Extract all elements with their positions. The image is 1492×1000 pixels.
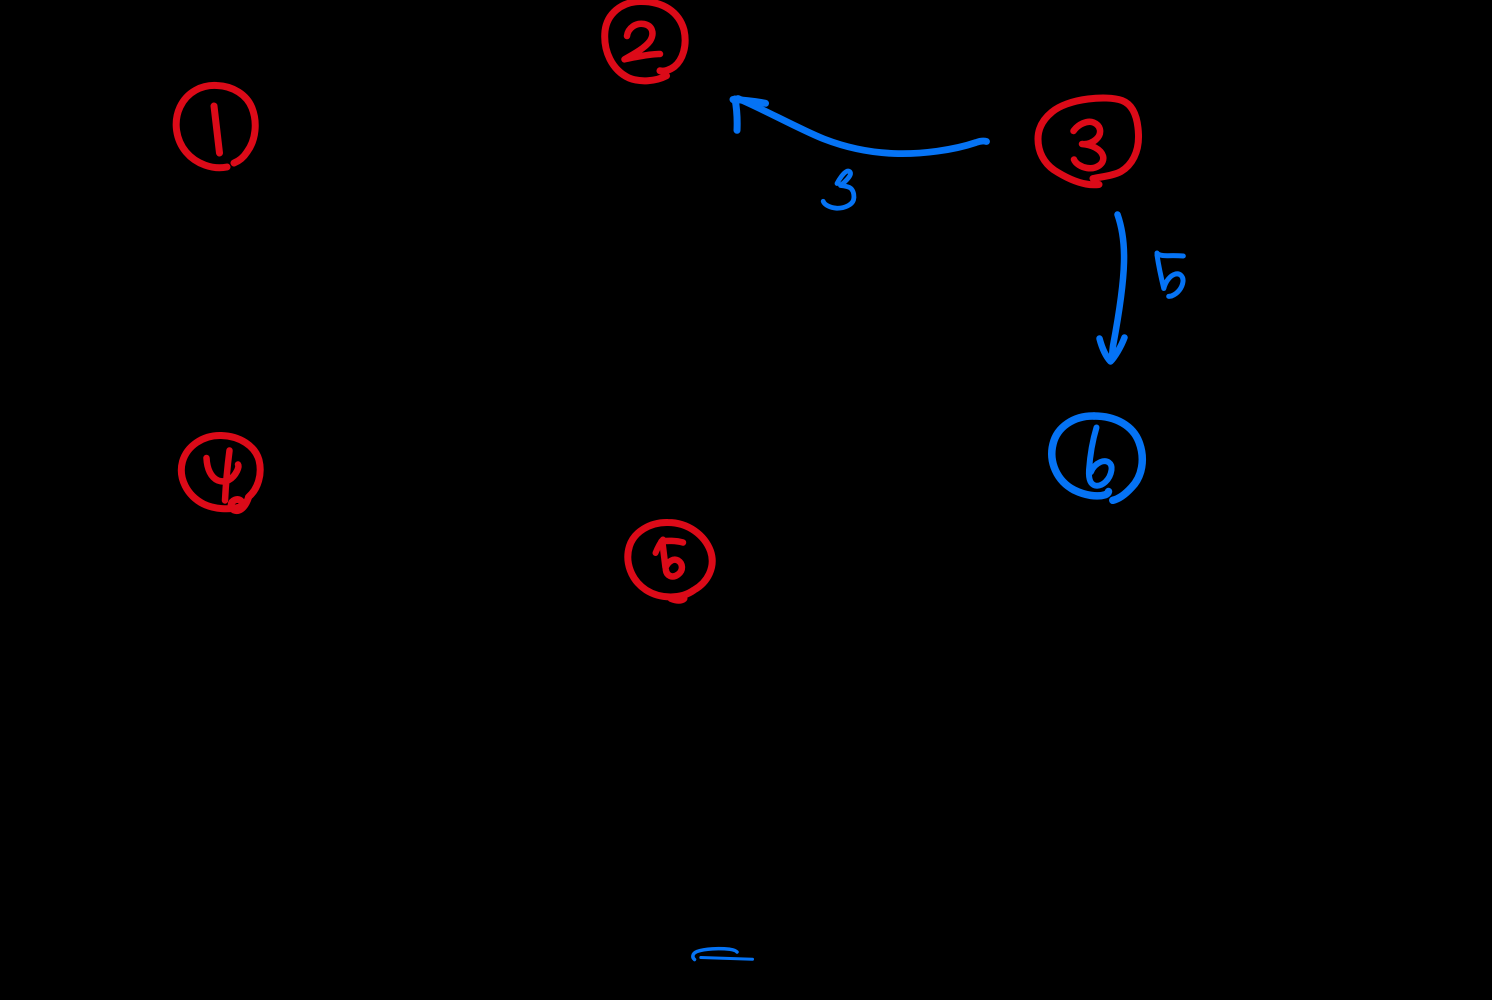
node 3 digit 3 [1074,122,1104,168]
node 2 digit 2 [625,24,661,60]
arrowhead v (down arrow) [1100,338,1125,362]
edge arrow from node 3 to node 6 (blue, down) [1112,215,1124,360]
node 6 digit 6 [1089,428,1112,486]
node 1 circle (red) [176,85,255,167]
node 6 circle left side (blue) [1052,416,1109,496]
node 4 circle end curl (red) [231,498,248,511]
bottom squiggle upper stroke (blue) [693,949,737,960]
node 4 circle right side (red) [221,436,260,498]
edge weight label 5 vertical and loop (blue) [1157,255,1183,296]
edge arrow from node 3 to node 2 (blue, curved) [738,99,987,154]
node 4 circle left side (red) [181,435,242,508]
edge weight label 5 top bar (blue) [1157,253,1183,256]
arrowhead barb (down) [735,99,737,130]
node 5 digit 5 body [663,543,682,576]
node 5 digit 5 lead-in flick [656,540,664,554]
node 2 circle left side and bottom (red) [605,2,667,81]
node 5 digit 5 top bar [662,541,684,543]
node 4 digit 4 (vertical tail) [225,451,230,501]
node 1 digit 1 [214,106,220,153]
node 4 digit 4 (open four, u part) [207,458,239,481]
node 6 circle right side and tail (blue) [1094,416,1142,500]
arrowhead barb (right) [733,100,766,104]
edge weight label 3 (blue) [823,171,854,208]
node 5 circle end nub [671,599,684,601]
node 5 circle (red) [628,522,712,596]
bottom squiggle lower stroke (blue) [701,958,753,960]
node 2 circle right side with inward hook (red) [640,1,685,71]
node 3 circle (red, one stroke with bottom overlap tail) [1038,98,1139,185]
